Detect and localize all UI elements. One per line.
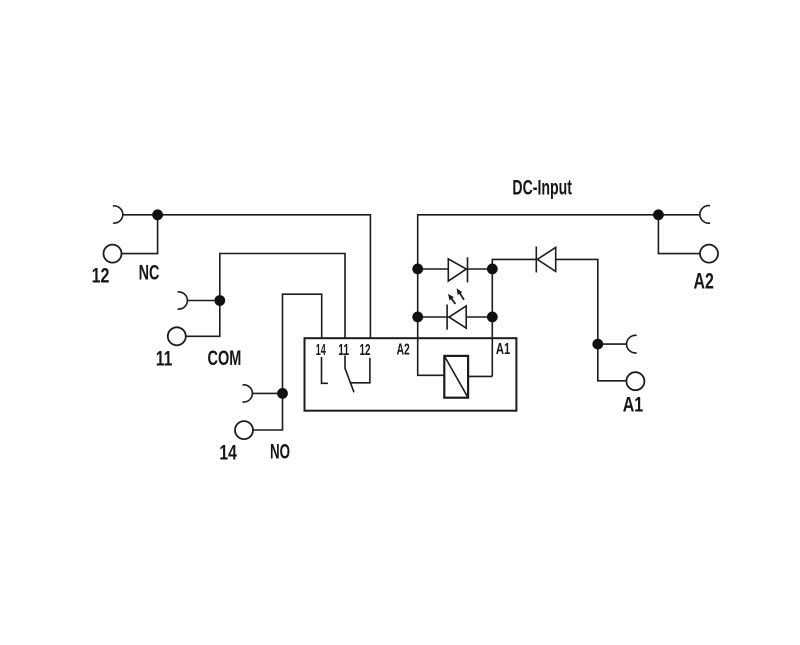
svg-text:A2: A2 [694, 268, 714, 293]
screw circle A1 [626, 372, 644, 390]
junction dot bridge top-left [412, 264, 423, 275]
wire COM down to screw circle 11 [186, 301, 220, 337]
wire left bridge branch down to coil [418, 269, 445, 375]
svg-text:12: 12 [360, 342, 371, 359]
svg-text:A2: A2 [397, 342, 410, 359]
svg-text:12: 12 [92, 264, 110, 287]
junction dot bridge bottom-left [412, 312, 423, 323]
wire diode D1 anode [418, 268, 449, 270]
wire NC horizontal to relay pin 12 [123, 215, 371, 338]
wire NO to relay pin 14 [252, 294, 322, 393]
LED arrow 1 [451, 298, 456, 304]
relay contact lead 12 [350, 358, 370, 383]
junction dot A2 [653, 209, 664, 220]
wire A1 down to screw circle [598, 344, 627, 381]
svg-text:NO: NO [270, 441, 290, 464]
wire COM to relay pin 11 [187, 254, 345, 339]
relay contact lead 14 [322, 357, 328, 383]
diode D1 cathode bar [467, 257, 469, 282]
svg-text:DC-Input: DC-Input [512, 177, 572, 200]
svg-text:A1: A1 [623, 394, 644, 417]
svg-text:11: 11 [156, 348, 173, 371]
wire diode D1 cathode [468, 268, 493, 270]
svg-text:COM: COM [208, 347, 242, 370]
clamp terminal A1 [627, 335, 637, 353]
screw circle A2 [700, 245, 718, 263]
diode D1 (top, pointing right) [448, 259, 466, 281]
svg-text:14: 14 [219, 441, 237, 464]
wire right bridge branch / coil A1 lead [468, 259, 536, 376]
wire A2 terminal to clamp [658, 214, 700, 216]
svg-text:NC: NC [139, 262, 160, 285]
wire NO down to screw circle 14 [253, 393, 283, 430]
screw circle 14 [235, 421, 253, 439]
junction dot NC [152, 209, 163, 220]
wire LED D3 right [466, 316, 492, 318]
wire DC-Input top rail [418, 215, 659, 269]
svg-text:A1: A1 [496, 341, 510, 358]
junction dot A1 [592, 339, 603, 350]
relay box outline [305, 338, 517, 411]
wire A1 junction to clamp [598, 343, 627, 345]
screw circle 12 [104, 245, 122, 263]
relay contact lever 11 [345, 356, 354, 393]
svg-text:11: 11 [338, 342, 349, 359]
clamp terminal NO (14) [243, 385, 253, 402]
junction dot NO [277, 388, 288, 399]
wire D2 anode to A1 junction [556, 259, 598, 344]
junction dot bridge bottom-right [487, 312, 498, 323]
LED D3 cathode bar [446, 305, 448, 330]
wire NC down to screw circle 12 [122, 215, 158, 254]
svg-text:14: 14 [316, 342, 326, 359]
junction dot COM [214, 295, 225, 306]
diode D2 cathode bar [535, 247, 537, 273]
wire LED D3 left [418, 316, 449, 318]
LED D3 triangle (pointing left) [449, 306, 466, 328]
screw circle 11 [168, 327, 186, 345]
LED arrow 2 [459, 292, 464, 300]
diode D2 (series, pointing left) [537, 247, 555, 271]
clamp terminal COM (11) [178, 292, 188, 309]
junction dot bridge top-right [487, 264, 498, 275]
relay coil diagonal [444, 356, 468, 398]
relay coil [444, 356, 468, 398]
clamp terminal A2 [700, 206, 710, 224]
wire A2 down to screw circle [658, 215, 700, 254]
clamp terminal NC (12) [113, 206, 123, 223]
